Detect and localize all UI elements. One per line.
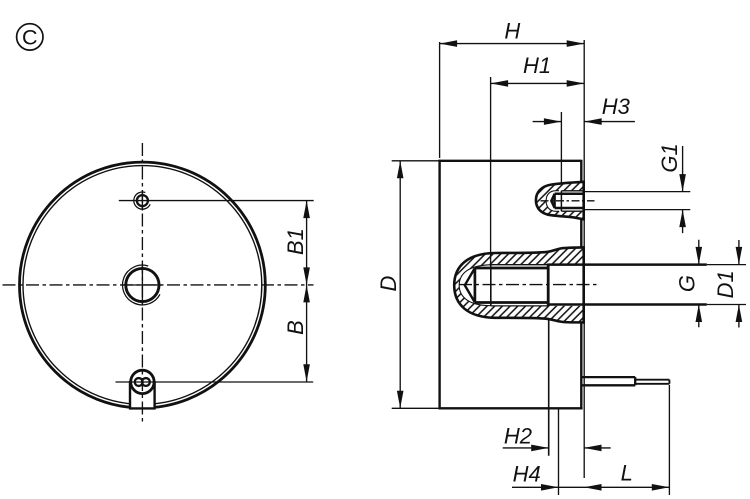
svg-text:L: L: [621, 461, 633, 486]
handwheel outer circle: [19, 162, 265, 408]
top grip hole thread arc: [134, 192, 150, 209]
hole opening / shaft lines: [548, 265, 707, 305]
top hole vertical solid segment: [141, 191, 143, 211]
grip hole minor lines: [555, 194, 584, 208]
grip blob hatched: [536, 182, 584, 220]
pin large section: [583, 377, 636, 385]
right main extension line: [583, 40, 585, 478]
view label C circle: [17, 24, 43, 50]
grip hole thread major thin lines: [561, 191, 583, 211]
svg-text:G1: G1: [657, 143, 682, 172]
handwheel inner (chamfer) circle: [23, 166, 262, 405]
pocket outline: [454, 247, 584, 322]
grip hole cone: [551, 194, 554, 208]
svg-text:H3: H3: [602, 94, 631, 119]
svg-text:B1: B1: [283, 228, 308, 255]
top grip hole: [137, 195, 148, 206]
pin (folded handle pivot) white fill: [583, 376, 670, 386]
grip centerline: [541, 200, 595, 202]
top hole horizontal line / B1 extension: [119, 200, 314, 202]
horizontal centerline: [3, 284, 314, 286]
hub hole minor lines: [475, 268, 548, 303]
solid crosshair over center hole: [123, 265, 162, 305]
H1 left extension: [490, 77, 492, 264]
hole mouth vertical: [547, 264, 550, 307]
dim G1: [682, 146, 684, 233]
grip cavity white: [546, 191, 561, 212]
dim H4 and L line: [512, 486, 669, 488]
bottom tab (folded handle boss side): [130, 386, 155, 408]
body top edge: [439, 160, 582, 162]
grip thread boundary: [560, 191, 562, 211]
back face raised segments: [582, 181, 585, 324]
dim G: [698, 240, 700, 328]
D extension lines: [392, 161, 439, 408]
cavity boundary arc: [459, 265, 491, 306]
hub hole drill cone: [465, 268, 475, 303]
center hole thread arc: [122, 265, 159, 305]
svg-text:H: H: [504, 19, 520, 44]
body bottom edge: [439, 407, 583, 409]
H left extension: [439, 42, 441, 158]
hub thread boundary: [490, 265, 492, 306]
svg-text:H1: H1: [523, 53, 551, 78]
G1 extension lines: [585, 192, 690, 210]
hub centerline: [459, 284, 600, 286]
bottom pivot small circle right: [142, 378, 150, 386]
grip hole white: [551, 191, 584, 211]
svg-text:B: B: [283, 320, 308, 335]
dim D1: [738, 240, 740, 328]
L right extension: [668, 385, 670, 495]
hub thread major thin lines: [491, 265, 548, 306]
dim H2: [503, 447, 611, 449]
body left edge (front face): [438, 160, 440, 410]
body right edge (back face) segments: [580, 160, 582, 409]
H4 left extension: [558, 409, 560, 495]
vertical centerline: [141, 143, 143, 422]
center hole: [126, 268, 159, 301]
shaft thin continuations: [707, 265, 746, 305]
pocket cavity white: [459, 265, 584, 306]
dim H line: [440, 43, 585, 45]
bottom pivot small circle left: [135, 378, 143, 386]
dimension B1/B line: [306, 201, 308, 382]
bottom boss circle: [131, 370, 154, 393]
dim H3: [533, 121, 635, 123]
grip cavity boundary arc: [546, 191, 559, 212]
svg-text:C: C: [22, 26, 38, 50]
body rectangle fill: [440, 161, 582, 408]
pin small section: [635, 380, 669, 384]
svg-text:D: D: [376, 275, 401, 291]
svg-text:H2: H2: [504, 423, 532, 448]
pocket blob hatched: [454, 247, 584, 322]
grip outline: [536, 182, 584, 220]
bottom boss horizontal line / B extension: [116, 381, 314, 383]
svg-text:D1: D1: [713, 270, 738, 298]
dim D line: [399, 161, 401, 408]
svg-text:H4: H4: [513, 462, 541, 487]
web back face / H2 extension: [548, 319, 550, 456]
svg-text:G: G: [675, 275, 700, 292]
dim H1 line: [491, 82, 585, 84]
H3 extension: [560, 112, 562, 182]
